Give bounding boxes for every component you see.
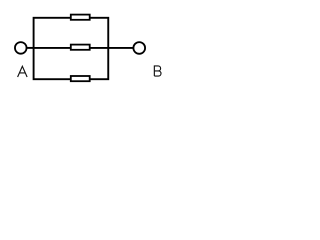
wire: middle branch from left bus to right bus <box>33 47 110 49</box>
node B label <box>154 66 161 76</box>
resistor R2 (middle branch) <box>71 45 90 50</box>
node A terminal circle <box>15 42 27 54</box>
wire: right bus to terminal B lead <box>108 47 139 49</box>
node B terminal circle <box>133 42 145 54</box>
wire: terminal A lead to left bus <box>21 47 34 49</box>
resistor R3 (bottom branch) <box>71 76 90 81</box>
node A label <box>18 66 28 77</box>
wire: outer loop (top branch, bottom branch, left bus, right bus) <box>34 18 109 79</box>
resistor R1 (top branch) <box>71 15 90 20</box>
